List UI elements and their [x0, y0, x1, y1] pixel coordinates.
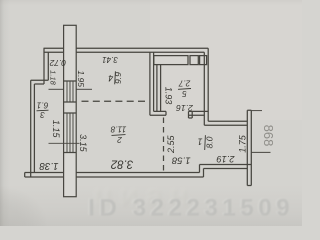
- svg-text:5: 5: [182, 89, 187, 98]
- room5 bottom wall left segment: [150, 111, 166, 115]
- top edge shade: [0, 0, 302, 5]
- right lower outer wall: [247, 110, 251, 185]
- svg-text:3: 3: [40, 110, 45, 120]
- room 4 label: [108, 71, 123, 84]
- svg-text:1.75: 1.75: [237, 134, 247, 153]
- svg-text:1.58: 1.58: [171, 155, 190, 166]
- room 1 label: [197, 135, 214, 150]
- bottom edge shade: [0, 185, 302, 226]
- svg-text:2: 2: [117, 135, 123, 145]
- room5 bottom wall right segment with jamb: [189, 111, 209, 118]
- room 5 label: [178, 79, 191, 99]
- svg-text:3.15: 3.15: [78, 134, 88, 153]
- dimension texts: [39, 55, 276, 171]
- svg-text:2.7: 2.7: [178, 79, 191, 88]
- svg-text:0.72: 0.72: [49, 58, 66, 68]
- top outer wall: [44, 48, 209, 52]
- svg-text:3.82: 3.82: [110, 157, 133, 169]
- bottom outer wall: [25, 173, 204, 178]
- svg-text:2.55: 2.55: [166, 134, 176, 154]
- left edge shade: [0, 0, 10, 226]
- room5 left wall: [157, 65, 161, 112]
- svg-text:2.16: 2.16: [176, 103, 194, 113]
- wall above room1: [204, 121, 247, 125]
- svg-text:868: 868: [261, 125, 276, 147]
- svg-text:3.41: 3.41: [102, 55, 118, 64]
- svg-text:2.19: 2.19: [217, 154, 236, 164]
- svg-text:8.0: 8.0: [204, 136, 214, 148]
- dashed opening room2 top: [82, 101, 164, 172]
- closet strip in room5: [154, 56, 188, 65]
- watermark giant word (very faint): [93, 177, 196, 213]
- watermark ID number: [87, 194, 294, 222]
- svg-text:11.8: 11.8: [110, 124, 126, 134]
- svg-text:1: 1: [197, 137, 202, 147]
- svg-text:1.38: 1.38: [39, 160, 59, 171]
- floor plan walls: [25, 48, 252, 185]
- jog wall top-left: [31, 80, 49, 84]
- room 2 label: [110, 124, 126, 144]
- svg-text:ID 322231509: ID 322231509: [88, 194, 294, 221]
- svg-text:1.93: 1.93: [164, 87, 174, 105]
- room 3 label: [37, 100, 49, 120]
- left outer wall upper: [44, 48, 48, 84]
- dashed line corridor/room1: [163, 118, 165, 173]
- svg-text:9.9: 9.9: [113, 72, 123, 84]
- svg-text:1.95: 1.95: [76, 70, 86, 87]
- svg-text:6.1: 6.1: [37, 100, 49, 110]
- svg-text:1.15: 1.15: [51, 120, 61, 139]
- room 4/5 divider wall: [150, 52, 154, 115]
- room labels: [37, 71, 215, 150]
- step wall bottom right: [200, 165, 252, 178]
- bottom-left corner shade: [0, 176, 60, 226]
- ventilation shaft column: [64, 25, 77, 196]
- svg-text:1.18: 1.18: [49, 70, 58, 85]
- right upper outer wall: [204, 48, 208, 125]
- dimension ticks: [49, 89, 271, 152]
- left outer wall lower: [31, 80, 35, 177]
